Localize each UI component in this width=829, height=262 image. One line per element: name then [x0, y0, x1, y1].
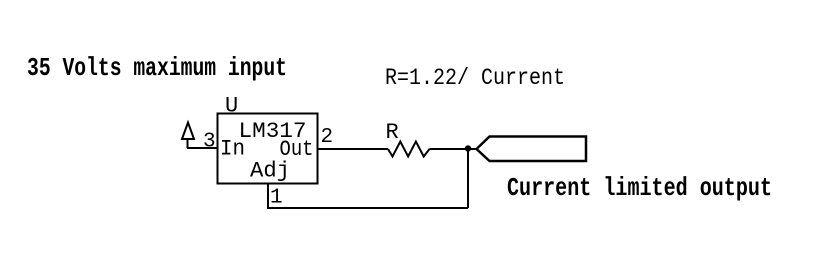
node junction dot — [465, 145, 471, 151]
resistor R — [388, 142, 430, 157]
wire: input to pin 3 — [187, 147, 218, 149]
wire: feedback bottom run — [268, 207, 468, 209]
svg-text:Current limited output: Current limited output — [507, 173, 772, 203]
svg-text:1: 1 — [270, 187, 283, 210]
wire: pin 2 to resistor R — [318, 148, 389, 150]
wire: resistor to output node — [430, 148, 477, 150]
svg-text:In: In — [220, 137, 245, 162]
output port symbol — [477, 137, 587, 162]
svg-text:R=1.22/ Current: R=1.22/ Current — [385, 65, 565, 91]
input arrow symbol — [182, 123, 194, 140]
svg-text:3: 3 — [203, 131, 216, 154]
svg-text:Adj: Adj — [250, 159, 290, 184]
wire: pin 1 (Adj) drop — [267, 184, 269, 210]
regulator U (LM317) box — [218, 114, 318, 184]
svg-text:R: R — [386, 120, 399, 145]
svg-text:U: U — [225, 94, 238, 119]
input arrow tail — [187, 139, 189, 148]
svg-text:35 Volts maximum input: 35 Volts maximum input — [27, 53, 287, 83]
svg-text:2: 2 — [321, 126, 334, 149]
wire: node down — [467, 149, 469, 208]
